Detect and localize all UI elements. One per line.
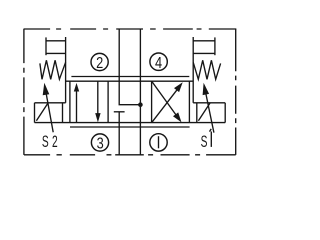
right position crossed arrow (down-right)	[152, 81, 182, 122]
left position down arrow	[95, 81, 100, 122]
solenoid box S1	[193, 103, 225, 123]
valve envelope bottom rail (shared with solenoid box bottoms)	[35, 122, 226, 124]
valve body bottom land line	[70, 126, 190, 128]
detent/ladder symbol left	[46, 37, 66, 55]
svg-text:S: S	[201, 132, 208, 150]
port channel line left (to top boundary, elbow to node)	[119, 29, 140, 105]
envelope left edge	[69, 81, 71, 122]
enclosure dash-dot border top	[24, 28, 236, 30]
valve body top land line	[71, 76, 189, 78]
svg-text:2: 2	[96, 55, 103, 73]
solenoid S2 arrow	[43, 83, 54, 133]
envelope right edge	[188, 81, 190, 122]
junction node dot	[138, 102, 143, 107]
push rod rail left	[65, 37, 67, 103]
left position up arrow	[74, 83, 79, 123]
enclosure dash-dot border bottom	[24, 154, 236, 156]
port channel line right (full height)	[139, 29, 141, 155]
valve envelope top rail	[66, 80, 194, 82]
svg-text:2: 2	[52, 132, 58, 150]
port 1 digit stroke	[158, 136, 160, 148]
solenoid S1 arrow	[203, 83, 214, 133]
detent/ladder symbol right	[193, 37, 215, 55]
spring left	[40, 60, 66, 79]
port circle 4	[150, 53, 167, 70]
position divider left	[107, 81, 109, 122]
port circle 3	[91, 134, 108, 151]
svg-text:S: S	[42, 132, 49, 150]
push rod rail right	[192, 37, 194, 103]
svg-text:4: 4	[155, 55, 162, 73]
port circle 2	[91, 53, 108, 70]
port circle 1	[150, 134, 167, 151]
blocked port 3 line with cross bar	[114, 112, 125, 155]
enclosure dash-dot border right	[235, 29, 237, 155]
S1 digit one	[210, 132, 212, 147]
position divider right	[151, 81, 153, 122]
svg-text:3: 3	[97, 135, 104, 153]
right position crossed arrow (up-right)	[152, 82, 183, 122]
solenoid box S2	[35, 103, 66, 123]
spring right	[193, 60, 220, 79]
enclosure dash-dot border left	[23, 29, 25, 155]
